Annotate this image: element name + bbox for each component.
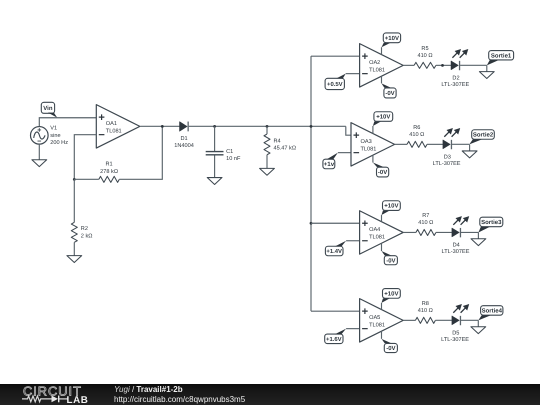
svg-text:+10V: +10V bbox=[376, 114, 390, 121]
wire bbox=[346, 240, 360, 242]
svg-text:R7: R7 bbox=[422, 213, 429, 219]
wire bbox=[140, 125, 179, 127]
svg-text:C1: C1 bbox=[226, 149, 233, 155]
footer title text bbox=[114, 385, 245, 405]
node -0V flag bbox=[373, 155, 389, 177]
wire bbox=[461, 319, 478, 321]
svg-text:LAB: LAB bbox=[67, 395, 89, 405]
resistor R1 bbox=[99, 162, 120, 183]
svg-text:TL081: TL081 bbox=[369, 322, 385, 328]
svg-text:TL081: TL081 bbox=[361, 146, 377, 152]
svg-text:1N4004: 1N4004 bbox=[174, 143, 194, 149]
wire bbox=[338, 152, 351, 154]
node Vin flag bbox=[41, 102, 57, 117]
svg-text:V1: V1 bbox=[50, 126, 57, 132]
node +1v flag bbox=[323, 153, 338, 169]
svg-text:OA4: OA4 bbox=[369, 227, 380, 233]
svg-text:2 kΩ: 2 kΩ bbox=[81, 232, 93, 239]
svg-text:LTL-307EE: LTL-307EE bbox=[442, 249, 470, 255]
wire bbox=[346, 73, 360, 75]
wire bbox=[311, 55, 360, 57]
node Sortie1 flag bbox=[487, 51, 514, 66]
wire bbox=[403, 319, 415, 321]
resistor R7 410 bbox=[416, 213, 436, 235]
svg-text:Sortie3: Sortie3 bbox=[481, 219, 502, 226]
svg-text:+10V: +10V bbox=[385, 35, 399, 42]
svg-text:R8: R8 bbox=[422, 301, 429, 307]
svg-text:OA5: OA5 bbox=[369, 315, 380, 321]
wire bbox=[395, 143, 407, 145]
wire bbox=[311, 222, 360, 224]
diode D1 1N4004 bbox=[174, 122, 194, 150]
svg-text:R1: R1 bbox=[106, 162, 113, 168]
svg-text:45.47 kΩ: 45.47 kΩ bbox=[274, 145, 297, 152]
node junction bbox=[441, 64, 444, 67]
svg-text:10 nF: 10 nF bbox=[226, 156, 241, 162]
svg-text:R4: R4 bbox=[274, 138, 281, 144]
op-amp OA1 bbox=[96, 105, 140, 148]
svg-text:+10V: +10V bbox=[384, 291, 398, 298]
svg-text:Vin: Vin bbox=[43, 105, 53, 112]
wire (bus) bbox=[310, 56, 312, 311]
svg-text:+0.5V: +0.5V bbox=[327, 81, 343, 88]
node +10V flag bbox=[373, 112, 393, 134]
svg-text:410 Ω: 410 Ω bbox=[418, 220, 433, 226]
op-amp OA2 TL081 bbox=[360, 44, 404, 87]
svg-text:TL081: TL081 bbox=[369, 234, 385, 240]
wire bbox=[346, 328, 360, 330]
node +10V flag bbox=[382, 201, 401, 222]
ground (Sortie4) bbox=[471, 320, 486, 333]
wire bbox=[119, 126, 162, 179]
op-amp OA3 TL081 bbox=[351, 123, 395, 166]
wire bbox=[427, 143, 443, 145]
LED D4 LTL-307EE bbox=[442, 216, 470, 255]
node -0V flag bbox=[382, 243, 398, 265]
ground (R4) bbox=[260, 155, 275, 176]
resistor R4 bbox=[264, 134, 296, 155]
svg-text:LTL-307EE: LTL-307EE bbox=[441, 82, 469, 88]
node +10V flag bbox=[382, 289, 401, 310]
wire bbox=[461, 231, 478, 233]
wire bbox=[311, 310, 360, 312]
svg-text:D1: D1 bbox=[181, 136, 188, 142]
resistor R2 bbox=[71, 222, 92, 242]
svg-text:D2: D2 bbox=[452, 75, 459, 81]
LED D2 LTL-307EE bbox=[441, 49, 469, 88]
svg-text:R5: R5 bbox=[421, 46, 428, 52]
node Sortie2 flag bbox=[469, 130, 494, 145]
node junction bbox=[73, 178, 76, 181]
resistor R5 410 bbox=[414, 46, 436, 68]
node -0V flag bbox=[382, 331, 398, 352]
svg-text:-0V: -0V bbox=[385, 90, 394, 97]
node junction bbox=[310, 125, 313, 128]
svg-text:+10V: +10V bbox=[384, 203, 398, 210]
wire bbox=[452, 143, 469, 145]
svg-text:TL081: TL081 bbox=[106, 128, 122, 134]
node Sortie3 flag bbox=[478, 217, 502, 232]
svg-text:278 kΩ: 278 kΩ bbox=[100, 168, 118, 175]
svg-text:410 Ω: 410 Ω bbox=[417, 53, 432, 59]
wire bbox=[460, 64, 487, 66]
svg-text:R2: R2 bbox=[81, 226, 88, 232]
svg-text:+1.6V: +1.6V bbox=[326, 336, 342, 343]
svg-text:-0V: -0V bbox=[378, 169, 387, 176]
svg-text:Sortie4: Sortie4 bbox=[482, 308, 503, 315]
ground (R2) bbox=[67, 242, 82, 262]
svg-text:R6: R6 bbox=[413, 125, 420, 131]
wire bbox=[403, 231, 416, 233]
node -0V flag bbox=[382, 76, 397, 98]
svg-text:-0V: -0V bbox=[386, 345, 395, 352]
svg-text:200 Hz: 200 Hz bbox=[50, 140, 68, 146]
node junction bbox=[310, 222, 313, 225]
ground (Sortie3) bbox=[471, 232, 486, 245]
resistor R8 410 bbox=[415, 301, 435, 323]
node +10V flag bbox=[382, 33, 401, 55]
op-amp OA5 TL081 bbox=[360, 299, 404, 342]
ground (Sortie2) bbox=[462, 144, 477, 158]
CircuitLab logo bbox=[22, 384, 112, 405]
svg-text:+1v: +1v bbox=[324, 161, 335, 168]
svg-text:410 Ω: 410 Ω bbox=[418, 308, 433, 314]
svg-text:Sortie2: Sortie2 bbox=[473, 132, 494, 139]
node +0.5V flag bbox=[325, 74, 346, 90]
svg-text:410 Ω: 410 Ω bbox=[409, 132, 424, 138]
wire bbox=[74, 178, 99, 180]
svg-text:D3: D3 bbox=[444, 154, 451, 160]
svg-text:LTL-307EE: LTL-307EE bbox=[433, 161, 461, 167]
op-amp OA4 TL081 bbox=[360, 211, 404, 254]
svg-text:TL081: TL081 bbox=[369, 67, 385, 73]
svg-text:OA3: OA3 bbox=[361, 139, 372, 145]
svg-text:OA1: OA1 bbox=[106, 121, 117, 127]
wire bbox=[435, 319, 452, 321]
wire bbox=[73, 179, 75, 222]
resistor R6 410 bbox=[407, 125, 427, 147]
svg-text:LTL-307EE: LTL-307EE bbox=[441, 337, 469, 343]
svg-text:OA2: OA2 bbox=[369, 60, 380, 66]
svg-text:D4: D4 bbox=[453, 243, 460, 249]
wire bbox=[436, 231, 452, 233]
wire bbox=[346, 126, 351, 135]
node Sortie4 flag bbox=[478, 306, 503, 321]
svg-text:Sortie1: Sortie1 bbox=[491, 52, 512, 59]
wire bbox=[214, 126, 216, 151]
node junction bbox=[161, 125, 164, 128]
svg-text:sine: sine bbox=[50, 132, 60, 139]
wire bbox=[436, 64, 451, 66]
node junction bbox=[266, 125, 269, 128]
node junction bbox=[213, 125, 216, 128]
wire bbox=[266, 126, 268, 134]
svg-text:D5: D5 bbox=[452, 330, 459, 336]
node +1.4V flag bbox=[325, 241, 346, 256]
ground (V1) bbox=[32, 144, 47, 167]
ground (Sortie1) bbox=[479, 65, 494, 78]
LED D5 LTL-307EE bbox=[441, 304, 469, 343]
wire bbox=[189, 125, 346, 127]
wire bbox=[39, 118, 96, 127]
wire bbox=[74, 135, 96, 180]
wire bbox=[403, 64, 414, 66]
capacitor C1 bbox=[206, 149, 241, 162]
svg-text:-0V: -0V bbox=[386, 257, 395, 264]
node +1.6V flag bbox=[325, 329, 346, 344]
ground (C1) bbox=[207, 155, 222, 184]
svg-text:+1.4V: +1.4V bbox=[326, 248, 342, 255]
LED D3 LTL-307EE bbox=[433, 128, 461, 167]
voltage source V1 bbox=[31, 126, 69, 147]
